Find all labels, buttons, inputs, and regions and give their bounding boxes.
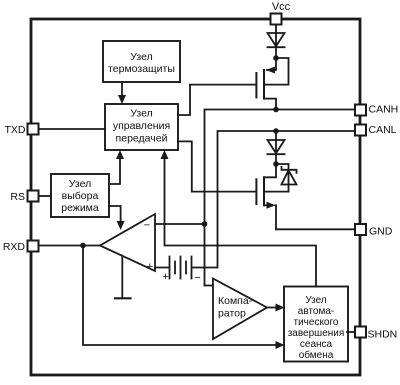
- wire RS to U3: [39, 195, 52, 197]
- wire receiver plus input to battery: [155, 267, 170, 269]
- wire comparator A2 top input: [205, 285, 214, 287]
- battery B1: [162, 257, 200, 285]
- pin Vcc: [271, 1, 291, 25]
- block U4 auto session shutdown (Узел автоматического завершения сеанса обмена): [284, 287, 348, 362]
- wire U2 to Q2 gate: [178, 141, 256, 191]
- svg-text:RS: RS: [10, 191, 25, 203]
- svg-text:сеанса: сеанса: [300, 339, 333, 350]
- svg-text:тического: тического: [294, 317, 339, 328]
- block U3 mode select (Узел выбора режима): [51, 174, 109, 217]
- wire CANL tap to diode D2: [275, 131, 277, 164]
- pin CANL: [355, 124, 397, 136]
- wire receiver minus input: [155, 223, 205, 225]
- transistor Q2 (low-side NMOS): [256, 164, 288, 229]
- wire U4 to SHDN pin: [347, 331, 355, 333]
- wire U3 to receiver comparator (arrow down): [109, 206, 125, 230]
- svg-text:режима: режима: [61, 202, 99, 214]
- wire GND net to pin: [276, 228, 355, 230]
- wire U2 to Q1 gate: [178, 85, 256, 115]
- block U1 thermal protection (Узел термозащиты): [103, 41, 180, 82]
- svg-text:RXD: RXD: [3, 241, 26, 253]
- svg-text:Узел: Узел: [69, 178, 91, 190]
- svg-text:завершения: завершения: [288, 328, 345, 339]
- transistor Q1 (high-side PMOS): [256, 58, 288, 110]
- svg-text:+: +: [147, 261, 153, 273]
- wire U3 to U2 (arrow up): [109, 150, 124, 184]
- wire RXD node down to U4 lower input (arrow right): [83, 246, 285, 350]
- wire CANL net: line to pin, down to battery: [193, 131, 356, 268]
- pin RS: [10, 191, 38, 203]
- svg-text:выбора: выбора: [62, 190, 99, 202]
- wire TXD to U2: [39, 128, 106, 130]
- comparator A2 (Компаратор): [213, 279, 267, 340]
- svg-text:передачей: передачей: [116, 133, 168, 145]
- block U2 transmit control (Узел управления передачей): [105, 104, 178, 150]
- pin CANH: [355, 104, 398, 116]
- diode D2: [268, 140, 285, 154]
- pin GND: [355, 224, 393, 238]
- wire Vcc pin to diode D1: [275, 25, 277, 59]
- zener diode VD1: [276, 164, 297, 192]
- pin TXD: [5, 124, 39, 136]
- wire U1 to U2 (arrow down): [118, 82, 126, 104]
- svg-text:автома-: автома-: [298, 306, 334, 317]
- wire RXD to receiver output: [39, 245, 101, 247]
- svg-text:SHDN: SHDN: [368, 328, 398, 340]
- svg-text:Узел: Узел: [305, 295, 326, 306]
- comparator A1 receiver: [100, 214, 155, 273]
- node RXD junction: [80, 243, 86, 249]
- svg-text:CANH: CANH: [369, 104, 399, 116]
- IC package border: [31, 19, 360, 375]
- svg-text:CANL: CANL: [369, 124, 397, 136]
- svg-text:−: −: [194, 272, 200, 284]
- ground: [115, 256, 131, 299]
- node minus input junction: [202, 221, 208, 227]
- wire feedback to U2 (arrow up) and down to U4: [161, 150, 317, 287]
- svg-text:+: +: [162, 271, 168, 283]
- svg-text:термозащиты: термозащиты: [108, 63, 175, 75]
- node Q1 source on CANH: [273, 107, 279, 113]
- svg-text:ратор: ратор: [218, 308, 246, 320]
- svg-text:Узел: Узел: [130, 51, 152, 63]
- svg-text:Компа-: Компа-: [218, 295, 253, 307]
- svg-text:TXD: TXD: [5, 124, 26, 136]
- wire A2 output to U4 (arrow right): [267, 304, 285, 312]
- diode D1: [268, 33, 285, 47]
- pin RXD: [3, 241, 39, 254]
- wire CANH net: line to pin, down to minus input and comparator A2: [205, 110, 356, 286]
- node D2 cathode junction: [273, 161, 279, 167]
- svg-text:управления: управления: [113, 120, 170, 132]
- pin SHDN: [355, 327, 397, 341]
- svg-text:обмена: обмена: [299, 349, 334, 361]
- node D1 cathode junction: [273, 55, 279, 61]
- svg-text:Vcc: Vcc: [272, 1, 291, 13]
- svg-text:−: −: [144, 220, 150, 232]
- svg-text:Узел: Узел: [130, 108, 152, 120]
- node CANL tap junction: [273, 128, 279, 134]
- svg-text:GND: GND: [369, 226, 393, 238]
